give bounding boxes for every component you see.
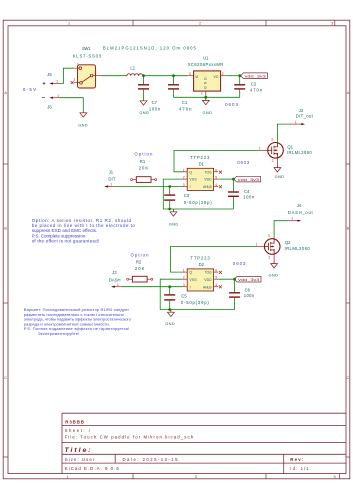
svg-text:5: 5: [215, 176, 217, 180]
svg-text:470n: 470n: [250, 87, 263, 92]
svg-text:of the effect is not guarantee: of the effect is not guaranteed!: [32, 239, 100, 244]
junction C5 on I wire: [168, 285, 171, 288]
svg-text:5: 5: [215, 276, 217, 280]
capacitor C2: [234, 76, 263, 98]
svg-text:C6: C6: [245, 288, 251, 293]
svg-text:3: 3: [183, 183, 185, 187]
resistor R1: [131, 152, 157, 183]
svg-text:GND: GND: [169, 222, 179, 227]
svg-text:2: 2: [199, 22, 201, 26]
transistor Q2: [256, 234, 311, 260]
svg-text:AHLB: AHLB: [203, 285, 212, 289]
wire U1 gnd pin: [205, 94, 207, 97]
svg-text:2: 2: [183, 276, 185, 280]
svg-text:20K: 20K: [139, 166, 149, 171]
svg-text:6: 6: [215, 168, 217, 172]
svg-text:SW1: SW1: [82, 46, 91, 51]
svg-text:vdd_3v3: vdd_3v3: [245, 74, 266, 79]
svg-text:A: A: [347, 91, 350, 95]
svg-text:D2: D2: [199, 262, 205, 267]
connector J5: [47, 72, 59, 84]
wire Q2 drain to J4: [274, 221, 288, 239]
svg-text:Q1: Q1: [287, 144, 293, 149]
svg-text:GND: GND: [269, 273, 279, 278]
svg-text:J5: J5: [47, 72, 52, 77]
svg-text:BLM21PG121SN1D, 120 Om 0805: BLM21PG121SN1D, 120 Om 0805: [103, 45, 197, 50]
svg-text:XC6206PxxxMR: XC6206PxxxMR: [188, 62, 224, 67]
svg-text:VSS: VSS: [189, 278, 197, 282]
wire D2 VSS to ground rail: [160, 279, 234, 309]
svg-text:2: 2: [222, 72, 224, 76]
wire D1 VDD to vdd label: [218, 178, 234, 180]
junction U1 gnd: [204, 96, 207, 99]
no-connect X pin6: [219, 171, 222, 174]
capacitor C4: [228, 179, 255, 209]
global label vdd_3v3 (D1): [234, 176, 261, 182]
svg-text:KiCad E.D.A. 9.0.6: KiCad E.D.A. 9.0.6: [65, 466, 120, 471]
ground under Q2: [271, 261, 278, 268]
junction C5 bottom: [168, 308, 171, 311]
junction C1: [172, 74, 175, 77]
svg-text:vdd_3v3: vdd_3v3: [238, 177, 259, 182]
svg-text:100n: 100n: [149, 106, 161, 111]
svg-text:C2: C2: [251, 82, 257, 87]
svg-text:VDD: VDD: [204, 178, 212, 182]
touch IC D2 TTP223: [182, 256, 222, 291]
junction C4: [232, 178, 235, 181]
svg-text:TTP223: TTP223: [190, 155, 210, 160]
svg-text:2: 2: [268, 256, 270, 260]
svg-text:4: 4: [215, 283, 217, 287]
capacitor C3: [164, 187, 212, 210]
regulator U1: [188, 55, 227, 95]
svg-text:GND: GND: [275, 174, 285, 179]
svg-text:C: C: [4, 376, 7, 380]
wire J3 to D2 pin I: [121, 286, 182, 288]
svg-text:KLS7-SS03: KLS7-SS03: [73, 54, 102, 59]
svg-text:GND: GND: [203, 110, 213, 115]
note text english: [32, 218, 136, 244]
svg-text:0603: 0603: [237, 160, 249, 165]
ground rail wire C1-U1-C2: [174, 96, 240, 98]
svg-text:I: I: [190, 185, 191, 189]
svg-text:DIT_out: DIT_out: [296, 113, 314, 118]
svg-text:100n: 100n: [244, 293, 255, 298]
svg-text:Option: Option: [131, 253, 150, 258]
wire J1 to D1 pin I: [114, 186, 183, 188]
junction C6: [233, 278, 236, 281]
svg-text:R2: R2: [136, 260, 142, 265]
svg-text:AHLB: AHLB: [203, 185, 212, 189]
svg-text:C5: C5: [181, 293, 187, 298]
svg-text:20K: 20K: [135, 266, 145, 271]
connector J4: [288, 203, 314, 222]
svg-text:U1: U1: [203, 55, 209, 60]
svg-text:0603: 0603: [233, 261, 246, 266]
svg-text:3: 3: [77, 63, 79, 67]
svg-text:J4: J4: [297, 203, 302, 208]
wire L1 to U1: [143, 75, 188, 77]
svg-text:TOG: TOG: [205, 170, 212, 174]
junction C7: [142, 74, 145, 77]
svg-text:1: 1: [110, 183, 112, 187]
svg-text:C7: C7: [152, 100, 158, 105]
svg-text:J2: J2: [299, 108, 304, 113]
svg-text:Q2: Q2: [285, 240, 291, 245]
svg-text:3: 3: [268, 234, 270, 238]
junction C3 bottom: [168, 208, 171, 211]
svg-text:1: 1: [73, 78, 75, 82]
minus mark: [42, 97, 45, 99]
capacitor C1: [168, 76, 192, 112]
connector J6: [47, 94, 59, 110]
global label vdd_3v3 (top): [241, 73, 268, 79]
plus mark: [43, 82, 46, 85]
svg-text:1: 1: [68, 22, 70, 26]
switch SW1: [71, 46, 102, 88]
svg-text:B: B: [347, 227, 350, 231]
svg-text:1: 1: [291, 216, 293, 220]
svg-text:DASH_out: DASH_out: [288, 210, 314, 215]
svg-text:R3BBB: R3BBB: [65, 419, 84, 424]
ground under U1: [202, 97, 209, 105]
svg-text:Id: 1/1: Id: 1/1: [290, 466, 309, 471]
svg-text:3: 3: [271, 138, 273, 142]
ground under C7: [140, 100, 147, 105]
svg-text:1: 1: [66, 475, 68, 479]
svg-text:L1: L1: [130, 65, 135, 70]
inductor L1: [103, 45, 197, 75]
svg-text:2: 2: [183, 176, 185, 180]
svg-text:2: 2: [95, 71, 97, 75]
svg-text:Option: Option: [134, 152, 153, 157]
svg-text:6: 6: [215, 269, 217, 273]
svg-text:GND: GND: [204, 77, 208, 89]
svg-text:1: 1: [183, 168, 185, 172]
connector J1: [104, 169, 116, 187]
svg-text:2: 2: [195, 475, 197, 479]
capacitor C5: [164, 287, 209, 310]
svg-text:3: 3: [331, 22, 333, 26]
junction C3 on I wire: [168, 185, 171, 188]
svg-text:Sheet: /: Sheet: /: [65, 428, 91, 433]
svg-text:VSS: VSS: [189, 178, 197, 182]
svg-text:1: 1: [201, 91, 203, 95]
svg-text:470n: 470n: [179, 107, 192, 112]
wire D2 Q to Q2 gate: [171, 246, 257, 272]
svg-text:GND: GND: [78, 122, 88, 127]
wire D1 Q to Q1 gate: [174, 150, 260, 171]
ground under D1 rail: [170, 209, 177, 216]
TITLE BLOCK: [62, 413, 346, 473]
no-connect X pin4: [219, 185, 222, 188]
svg-text:C4: C4: [244, 189, 250, 194]
svg-text:1: 1: [117, 283, 119, 287]
svg-text:C3: C3: [184, 193, 190, 198]
junction C2: [238, 74, 241, 77]
wire D1 VSS to ground rail: [163, 179, 233, 209]
global label vdd_3v3 (D2): [234, 276, 261, 282]
svg-text:DIT: DIT: [108, 177, 115, 182]
svg-text:3: 3: [183, 283, 185, 287]
svg-text:TOG: TOG: [205, 271, 212, 275]
ground under D2 rail: [168, 310, 175, 317]
connector J3: [109, 270, 121, 288]
resistor R2: [127, 253, 153, 282]
wire J5 to SW1: [59, 68, 74, 83]
wire J6 to gnd: [59, 98, 83, 112]
svg-text:Q: Q: [189, 170, 192, 174]
svg-text:Экспериментируйте!: Экспериментируйте!: [38, 331, 80, 336]
svg-text:File: Touch CW paddle for Mikr: File: Touch CW paddle for Mikron.kicad_s…: [65, 435, 194, 440]
svg-text:0-50p(39p): 0-50p(39p): [181, 300, 210, 305]
svg-text:C1: C1: [182, 100, 188, 105]
svg-text:1: 1: [57, 94, 59, 98]
wire SW1 to L1: [100, 75, 127, 77]
svg-text:J3: J3: [112, 270, 117, 275]
svg-text:R1: R1: [140, 159, 146, 164]
svg-text:GND: GND: [165, 321, 175, 326]
svg-text:D1: D1: [199, 162, 205, 167]
transistor Q1: [259, 138, 312, 163]
Q2 source pin: [273, 254, 275, 260]
svg-text:vdd_3v3: vdd_3v3: [238, 277, 259, 282]
svg-text:IRLML2060: IRLML2060: [285, 246, 311, 251]
svg-text:100n: 100n: [243, 194, 254, 199]
svg-text:Q: Q: [189, 271, 192, 275]
svg-text:VI: VI: [195, 75, 198, 79]
svg-text:1: 1: [259, 146, 261, 150]
wire U1 VO to C2/vdd: [226, 75, 240, 77]
svg-text:1: 1: [56, 80, 58, 84]
Q1 source pin: [276, 158, 278, 165]
capacitor C6: [229, 279, 255, 309]
svg-text:I: I: [190, 285, 191, 289]
svg-text:TTP223: TTP223: [190, 256, 210, 261]
note text russian: [24, 307, 132, 336]
svg-text:1: 1: [183, 269, 185, 273]
ground under Q1: [274, 165, 281, 172]
touch IC D1 TTP223: [182, 155, 222, 190]
svg-text:3: 3: [189, 72, 191, 76]
svg-text:VO: VO: [214, 75, 219, 79]
wire Q1 drain to J2: [277, 124, 291, 143]
svg-text:1: 1: [256, 242, 258, 246]
svg-text:J6: J6: [47, 105, 52, 110]
svg-text:2: 2: [272, 159, 274, 163]
svg-text:GND: GND: [139, 110, 149, 115]
connector J2: [291, 108, 314, 125]
svg-text:0603: 0603: [225, 102, 238, 107]
svg-text:J1: J1: [109, 169, 114, 174]
svg-text:C: C: [347, 376, 350, 380]
svg-text:Size: User: Size: User: [65, 457, 95, 462]
svg-text:DASH: DASH: [109, 278, 121, 283]
svg-text:Date: 2025-12-15: Date: 2025-12-15: [123, 457, 179, 462]
capacitor C7: [138, 76, 161, 112]
svg-text:3: 3: [333, 475, 335, 479]
ground under J6: [80, 112, 87, 117]
svg-text:1: 1: [295, 120, 297, 124]
svg-text:IRLML2060: IRLML2060: [287, 150, 312, 155]
wire D2 VDD to vdd label: [218, 278, 234, 280]
svg-text:VDD: VDD: [204, 278, 212, 282]
svg-text:0-5V: 0-5V: [23, 87, 36, 92]
svg-text:4: 4: [215, 183, 217, 187]
svg-text:0-50p(39p): 0-50p(39p): [184, 200, 213, 205]
